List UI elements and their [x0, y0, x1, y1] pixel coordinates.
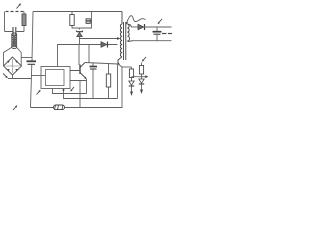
- wire (negative output rail from secondary bottom): [133, 40, 172, 42]
- transformer T1 core: [124, 22, 126, 60]
- label arrow (numeral 20, transformer): [126, 16, 146, 25]
- capacitor C1 (series, vertical plates): [13, 27, 16, 36]
- wire (positive output rail): [145, 26, 172, 28]
- output terminal dashes: [162, 33, 172, 35]
- resistor R6 (right feedback branch): [139, 63, 143, 80]
- wire (clamp network loop): [72, 12, 92, 30]
- wire (main vertical rail): [31, 12, 34, 108]
- diode D9 (right feedback branch): [139, 79, 144, 90]
- wire (clamp bus y44.5 with corner down to controller top pin): [58, 45, 118, 67]
- wire (winding fan-out leads): [4, 48, 22, 67]
- resistor R4 (bottom bus sense): [54, 105, 65, 110]
- junction (controller pin 2): [63, 89, 65, 91]
- capacitor C3 (clamp, striped box): [86, 19, 92, 24]
- wire (bridge bottom return to rail): [8, 75, 31, 79]
- wire (controller lower pin and emitter drop): [70, 79, 87, 108]
- wire (top bus): [33, 11, 122, 13]
- wire (rail to controller left pin): [32, 75, 46, 77]
- wire (collector node line to primary bottom junction): [85, 63, 118, 65]
- label arrow (numeral 22, output node): [158, 19, 162, 24]
- fuse F1: [22, 14, 26, 26]
- diode D6 (clamp bus): [101, 42, 108, 48]
- resistor R3 (snubber): [106, 64, 110, 99]
- wire (junction to left feedback branch): [122, 66, 132, 68]
- zener diode D5: [76, 31, 82, 37]
- controller U1 (inner box): [46, 70, 65, 86]
- controller U1 (outer box): [41, 67, 70, 89]
- transformer T1 primary winding: [118, 12, 122, 65]
- bridge rectifier BR1 (diamond): [4, 57, 22, 75]
- capacitor C4 (snubber): [90, 63, 98, 99]
- diode D7 (output rectifier): [138, 24, 145, 30]
- label arrow (numeral 16, controller corner): [37, 90, 41, 95]
- wire (secondary top to output diode): [132, 26, 139, 28]
- wire (clamp bus drop to collector line): [88, 45, 90, 63]
- wire (bottom bus of AC box): [5, 31, 25, 33]
- wire (bottom return bus with corner up to junction): [31, 64, 123, 108]
- arrow (feedback tap, pointing right): [132, 75, 149, 78]
- label arrow (numeral 10, top-left): [17, 3, 21, 8]
- resistor R5 (left feedback branch): [129, 67, 133, 81]
- wire (zener lead down through clamp bus to switch base): [78, 37, 81, 65]
- diode D8 (left feedback branch): [129, 81, 134, 92]
- label arrow (numeral 18, pointing at emitter bus): [70, 87, 74, 92]
- inductor L1 (vertical winding): [12, 33, 17, 49]
- transformer T1 secondary winding: [128, 24, 134, 42]
- label arrow (numeral 12, pointing at return wire): [3, 74, 8, 79]
- transistor Q1 (switch): [70, 63, 87, 80]
- wire (left AC rail): [4, 12, 6, 32]
- capacitor C2 (bulk electrolytic on rail): [27, 61, 37, 64]
- wire (node line to primary top, with arrowhead): [80, 37, 121, 40]
- wire (bridge + output to main rail): [21, 57, 32, 59]
- capacitor C5 (output filter): [153, 27, 162, 41]
- label arrow (junction at primary bottom): [117, 62, 120, 64]
- wire (right AC rail): [23, 12, 25, 32]
- wire (controller bottom pin 2 to inner ground bus): [64, 64, 118, 99]
- resistor R2 (clamp): [70, 15, 74, 26]
- AC input terminal dashes: [6, 11, 24, 13]
- label arrow (numeral 26, right branch top): [142, 57, 146, 62]
- wire (controller bottom pin 1 to emitter bus): [53, 89, 87, 94]
- arrow (right branch, down): [140, 90, 143, 95]
- label arrow (numeral 24, bottom-left): [13, 105, 17, 110]
- arrow (left branch, down): [130, 92, 133, 97]
